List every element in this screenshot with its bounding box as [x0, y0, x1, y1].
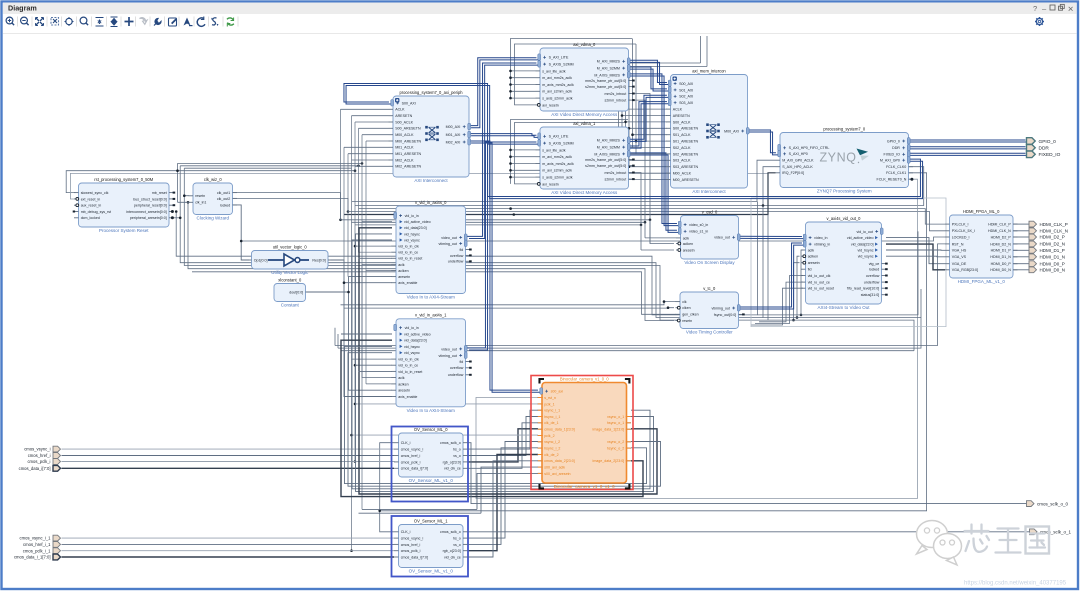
svg-text:HDMI_CLK_N: HDMI_CLK_N	[988, 229, 1011, 233]
svg-text:v_osd_0: v_osd_0	[702, 209, 718, 214]
block processing_system7_0	[776, 126, 914, 193]
wire FIXED_IO wire (interface)	[907, 153, 1027, 155]
watermark text guo (hand-drawn)	[1026, 527, 1050, 554]
svg-text:S01_ARESETN: S01_ARESETN	[673, 140, 699, 144]
svg-text:video_in: video_in	[814, 236, 827, 240]
svg-text:M02_AXI: M02_AXI	[446, 140, 461, 144]
wire vdma1 aclk stub y156.7	[511, 156, 536, 158]
svg-text:ACLK: ACLK	[673, 108, 683, 112]
wire clk_wiz clk_in1 net	[178, 201, 190, 203]
svg-text:FCLK_CLK1: FCLK_CLK1	[886, 171, 906, 175]
block OV_Sensor_ML_0	[394, 427, 468, 483]
wire clk band b4	[188, 202, 674, 320]
svg-text:Constant: Constant	[281, 303, 300, 308]
svg-text:vid_data[23:0]: vid_data[23:0]	[404, 226, 427, 230]
svg-text:aclken: aclken	[683, 242, 693, 246]
svg-text:hsync_o_2: hsync_o_2	[607, 447, 624, 451]
block axi_vdma_1	[536, 121, 635, 195]
wire vdma0 resetn wrap	[515, 44, 637, 105]
wire aresetn band b2	[180, 166, 763, 318]
svg-text:Utility Vector Logic: Utility Vector Logic	[271, 270, 309, 275]
Binocular camera orange pin stubs	[538, 398, 631, 474]
svg-text:M02_ACLK: M02_ACLK	[395, 158, 414, 162]
wire mi v x632.5	[632, 39, 634, 148]
wire vdma1 aclk stub y177.1	[511, 176, 536, 178]
svg-text:S_AXI_LITE: S_AXI_LITE	[549, 135, 569, 139]
toolbar background	[3, 14, 1077, 34]
svg-text:vid_data[23:0]: vid_data[23:0]	[851, 243, 874, 247]
wire image_data_1 loop	[359, 228, 657, 494]
svg-text:ZYNQ: ZYNQ	[819, 151, 856, 165]
toolbar gear icon	[6, 17, 238, 27]
wire mi v x636	[635, 44, 637, 154]
wire vsync_o_2 loop	[348, 353, 661, 487]
svg-text:clk_out1: clk_out1	[217, 191, 230, 195]
svg-text:S00_ACLK: S00_ACLK	[395, 120, 413, 124]
svg-text:Diagram: Diagram	[8, 4, 37, 13]
svg-text:aresetn: aresetn	[398, 389, 410, 393]
title bar window buttons	[1033, 4, 1074, 14]
wire active_video_1 feed	[341, 333, 392, 335]
wire vid0 video_out to vdma0 S_AXIS_S2MM (interface)	[467, 63, 539, 238]
svg-text:M00_ACLK: M00_ACLK	[395, 133, 414, 137]
svg-text:fid: fid	[808, 268, 812, 272]
output port HDMI_D2_N	[1029, 241, 1065, 247]
wire clk band h3	[184, 167, 351, 169]
junction d-v1clk149.9	[509, 149, 512, 152]
wire vid_active to VGA_DE	[886, 238, 945, 264]
wire mi aresetn stub 4	[629, 166, 667, 168]
wire vdma1 S2MM to S03_AXI (interface)	[627, 102, 669, 149]
wire axi_periph left pin net 8	[352, 159, 389, 161]
wire mi wrap top1	[619, 63, 701, 173]
selection corner handles Binocular_camera	[540, 379, 630, 488]
svg-text:vid_io_in_ce: vid_io_in_ce	[398, 251, 418, 255]
wire clk_wiz resetn net	[184, 195, 189, 197]
svg-text:S00_ARESETN: S00_ARESETN	[673, 127, 699, 131]
junction d-resetn	[183, 194, 186, 197]
icon interconnect crossbar axi_mem_intercon	[706, 123, 720, 138]
block v_osd_0	[676, 209, 740, 265]
input port cmos_href_i	[28, 453, 61, 459]
wire hdmi out net 0	[1013, 223, 1029, 225]
wire vsync_o_1 loop	[352, 240, 650, 489]
svg-text:cmos_data_i[7:0]: cmos_data_i[7:0]	[401, 555, 428, 559]
svg-text:OV_Sensor_ML_v1_0: OV_Sensor_ML_v1_0	[409, 478, 454, 483]
svg-text:AXI Video Direct Memory Access: AXI Video Direct Memory Access	[551, 190, 618, 195]
icon interconnect crossbar axi_periph	[425, 126, 439, 141]
input port cmos_data_i[7:0]	[19, 465, 61, 471]
svg-text:HDMI_D1_P: HDMI_D1_P	[1040, 248, 1065, 253]
wire low band 3	[341, 350, 914, 352]
svg-text:HDMI_D0_N: HDMI_D0_N	[1040, 268, 1066, 273]
junction d-mi-a1	[624, 121, 627, 124]
svg-text:S03_ARESETN: S03_ARESETN	[673, 165, 699, 169]
svg-text:s2mm_introut: s2mm_introut	[605, 178, 627, 182]
wire bundle v x351.5 b	[352, 359, 395, 551]
wire OV0 vs_o to hsync_i_1	[468, 417, 539, 456]
junction d-int2	[640, 224, 643, 227]
wire band b5	[192, 272, 676, 315]
block clk_wiz_0	[189, 177, 238, 221]
svg-text:s00_axi_aclk: s00_axi_aclk	[544, 466, 565, 470]
wire vtc band pair2	[344, 307, 674, 309]
svg-text:underflow: underflow	[864, 281, 880, 285]
wire cmos_pclk_i_1 net	[62, 550, 395, 552]
wire vaxi out clk feed	[755, 276, 803, 324]
svg-text:vid_vsync: vid_vsync	[858, 255, 874, 259]
svg-text:v_vid_in_axi4s_0: v_vid_in_axi4s_0	[415, 200, 447, 205]
input port cmos_pclk_i_1	[23, 548, 61, 554]
svg-text:aresetn: aresetn	[808, 261, 820, 265]
svg-text:vs_o: vs_o	[453, 543, 461, 547]
svg-text:vid_io_in_reset: vid_io_in_reset	[398, 257, 422, 261]
svg-text:s00_axi_aresetn: s00_axi_aresetn	[544, 472, 570, 476]
wire mi v x629	[628, 67, 630, 167]
junction d-mi-r1	[628, 127, 631, 130]
junction d-v0clk84.5	[509, 83, 512, 86]
svg-text:M00_ACLK: M00_ACLK	[673, 172, 692, 176]
wire mi aclk stub 0	[619, 108, 667, 110]
svg-text:FCLK_CLK0: FCLK_CLK0	[886, 165, 906, 169]
block processing_system7_0_axi_periph	[389, 90, 471, 183]
svg-text:axi_vdma_1: axi_vdma_1	[573, 121, 596, 126]
junction d-mi-a2	[631, 133, 634, 136]
block xlconstant_0	[274, 277, 310, 307]
wire vaxi out reset feed	[751, 288, 803, 325]
svg-text:cmos_vsync_i: cmos_vsync_i	[401, 448, 424, 452]
svg-text:resetn: resetn	[195, 194, 205, 198]
svg-text:Binocular_camera_v1_0_v1_0: Binocular_camera_v1_0_v1_0	[554, 484, 615, 489]
svg-text:HDMI_D2_N: HDMI_D2_N	[990, 242, 1011, 246]
watermark text xin (hand-drawn)	[965, 525, 990, 552]
svg-text:M_AXIS_MM2S: M_AXIS_MM2S	[594, 152, 620, 156]
svg-text:HDMI_D1_P: HDMI_D1_P	[991, 249, 1012, 253]
wire image_data_2 loop	[341, 340, 643, 496]
output port HDMI_D1_P	[1029, 247, 1065, 253]
svg-text:v_vid_in_axi4s_1: v_vid_in_axi4s_1	[415, 313, 447, 318]
svg-text:vsync_o_2: vsync_o_2	[607, 440, 624, 444]
block v_vid_in_axi4s_1	[392, 313, 472, 413]
watermark text wang (hand-drawn)	[996, 529, 1021, 553]
wire vdma1 resetn wrap	[515, 123, 625, 184]
block v_axi4s_vid_out_0	[801, 216, 888, 310]
wire axi_periph left pin net 6	[344, 146, 389, 148]
svg-text:clk_wiz_0: clk_wiz_0	[204, 177, 222, 182]
svg-text:vid_vsync: vid_vsync	[404, 238, 420, 242]
wire vdma0 S2MM to S01_AXI (interface)	[627, 67, 669, 91]
output port HDMI_CLK_P	[1029, 221, 1068, 227]
wire aresetn band b1	[176, 212, 757, 315]
wire vaxi aclken feed	[797, 256, 800, 317]
svg-text:S03_AXI: S03_AXI	[679, 101, 693, 105]
svg-text:VGA_HS: VGA_HS	[952, 249, 967, 253]
svg-text:PXLCLK_I: PXLCLK_I	[952, 223, 969, 227]
junction d-v1clk170.3	[509, 169, 512, 172]
wire mi v x625.5	[625, 67, 627, 160]
junction d-hp0aclk	[762, 204, 765, 207]
svg-text:vid_active_video: vid_active_video	[847, 236, 874, 240]
svg-text:clk_in1: clk_in1	[195, 201, 206, 205]
svg-text:hsync_i_1: hsync_i_1	[544, 415, 560, 419]
wire vdma1 MM2S to S02_AXI (interface)	[627, 95, 669, 141]
junction d-mi-a0	[617, 108, 620, 111]
wire vtc band pair1	[341, 302, 677, 305]
wire mid 201.5 gp0aclk	[352, 160, 776, 201]
block v_vid_in_axi4s_0	[392, 200, 472, 300]
wire bundle v x348	[347, 154, 349, 277]
junction d-int1	[644, 221, 647, 224]
svg-text:S_AXI_HP0: S_AXI_HP0	[789, 152, 808, 156]
wire mi aresetn stub 1	[629, 127, 667, 129]
svg-text:vid_io_in: vid_io_in	[405, 214, 419, 218]
svg-text:S00_AXI: S00_AXI	[679, 82, 693, 86]
wire vid0 reset feed	[359, 257, 393, 259]
wire axi_periph left pin net 1	[352, 115, 389, 117]
wire hdmi out net 5	[1013, 256, 1029, 258]
wire slowest_sync_clk net	[66, 171, 355, 193]
wire s00_axi_aresetn net	[477, 473, 538, 509]
wire M01_AXI to vdma1 S_AXI_LITE (interface)	[469, 134, 539, 138]
junction d-pclkport2	[350, 549, 353, 552]
svg-text:s2mm_frame_ptr_out[5:0]: s2mm_frame_ptr_out[5:0]	[585, 164, 626, 168]
svg-text:clk: clk	[682, 300, 687, 304]
svg-text:Video In to AXI4-Stream: Video In to AXI4-Stream	[407, 295, 455, 300]
wire osd video_out to video_in (interface)	[738, 236, 804, 238]
selection rect Binocular_camera (red)	[531, 376, 633, 490]
svg-text:vid_vsync: vid_vsync	[404, 351, 420, 355]
svg-text:HDMI_CLK_P: HDMI_CLK_P	[988, 223, 1011, 227]
svg-text:M_AXI_MM2S: M_AXI_MM2S	[597, 139, 621, 143]
wire fclk_clk1 branch OV1 clk	[380, 511, 394, 532]
input port cmos_vsync_i_1	[20, 535, 61, 541]
block v_tc_0	[676, 286, 745, 335]
svg-text:M02_ARESETN: M02_ARESETN	[395, 165, 421, 169]
junction d-v0clk70.9	[509, 70, 512, 73]
svg-text:S_AXIS_S2MM: S_AXIS_S2MM	[549, 63, 574, 67]
svg-text:axi_resetn: axi_resetn	[542, 182, 559, 186]
junction d-pclkport	[354, 460, 357, 463]
svg-text:cmos_href_i_1: cmos_href_i_1	[23, 542, 51, 547]
wire tc v x700.5	[700, 36, 702, 63]
svg-text:✕: ✕	[1068, 5, 1074, 14]
svg-text:VGA_VS: VGA_VS	[952, 255, 967, 259]
wire OV1 rgb_o to cmos_data_2	[468, 455, 539, 551]
wire vdma0 aclk stub y91.3	[511, 90, 536, 92]
wire OV0 hs_o to vsync_i_1	[468, 410, 539, 449]
wire axi_periph left pin net 9	[355, 165, 389, 167]
wire axi_periph left pin net 4	[362, 134, 389, 136]
wire vid_data to VGA_RGB	[886, 244, 945, 270]
output port cmos_sclk_o_0	[1027, 501, 1069, 507]
wire vdma1 aclk wrap	[511, 120, 629, 184]
wire mi aresetn stub 5	[622, 179, 667, 181]
svg-text:S00_ARESETN: S00_ARESETN	[395, 127, 421, 131]
svg-text:S02_AXI: S02_AXI	[679, 95, 693, 99]
svg-text:HDMI_D2_P: HDMI_D2_P	[1040, 235, 1065, 240]
wire clk_in1 riser	[177, 163, 179, 202]
junction d-v1clk177.1	[509, 176, 512, 179]
junction d-va3	[792, 319, 795, 322]
block rst_processing_system7_0_50M	[73, 177, 176, 233]
svg-text:HDMI_CLK_N: HDMI_CLK_N	[1040, 229, 1069, 234]
svg-text:fid: fid	[460, 248, 464, 252]
svg-text:axis_enable: axis_enable	[398, 281, 417, 285]
svg-text:mm2s_frame_ptr_out[5:0]: mm2s_frame_ptr_out[5:0]	[585, 158, 626, 162]
svg-text:CLK_i: CLK_i	[401, 441, 411, 445]
svg-text:S02_ARESETN: S02_ARESETN	[673, 152, 699, 156]
wire mid 205.5 hp0aclk branch	[763, 167, 776, 206]
wire OV1 hs_o to vsync_i_2	[468, 442, 539, 539]
junction d-b2	[179, 217, 182, 220]
svg-text:aresetn: aresetn	[398, 275, 410, 279]
svg-text:cmos_sclk_o_0: cmos_sclk_o_0	[1037, 501, 1069, 506]
wire hdmi out net 1	[1013, 230, 1029, 232]
svg-text:overflow: overflow	[866, 274, 880, 278]
svg-text:?: ?	[1033, 4, 1037, 13]
output port DDR	[1027, 145, 1050, 152]
wire low band 1	[335, 244, 945, 346]
svg-text:vtiming_out: vtiming_out	[712, 306, 730, 310]
wire bundle v x366 low	[365, 271, 367, 384]
junction d-v1clk156.7	[509, 155, 512, 158]
junction d-mi-a5	[617, 172, 620, 175]
svg-text:xlconstant_0: xlconstant_0	[278, 277, 302, 282]
svg-text:cmos_sclk_o: cmos_sclk_o	[440, 441, 461, 445]
junction d-b1	[175, 210, 178, 213]
selection rect OV_Sensor_ML_0	[392, 427, 469, 502]
wire DDR wire (interface)	[907, 147, 1027, 149]
junction d-v0clk91.3	[509, 90, 512, 93]
wire Res branch to vid1 axis_enable	[344, 283, 392, 397]
wire mid 224.9	[355, 224, 641, 226]
svg-text:axi_vdma_0: axi_vdma_0	[573, 42, 596, 47]
svg-text:M01_AXI: M01_AXI	[446, 133, 461, 137]
svg-text:vid_clk_ce: vid_clk_ce	[444, 555, 461, 559]
junction d-mi-r5	[621, 178, 624, 181]
block OV_Sensor_ML_1	[394, 518, 468, 573]
svg-text:clk_de_2: clk_de_2	[544, 453, 558, 457]
wire axi_periph left pin net 7	[348, 153, 389, 155]
wire cmos_vsync_i_1 net	[62, 537, 395, 539]
svg-text:DDR: DDR	[892, 146, 900, 150]
icon ZYNQ logo	[819, 149, 869, 165]
svg-text:HDMI_D2_N: HDMI_D2_N	[1040, 242, 1066, 247]
svg-text:rgb_o[23:0]: rgb_o[23:0]	[443, 549, 461, 553]
svg-text:vsync_i_1: vsync_i_1	[544, 409, 560, 413]
svg-text:vtg_ce: vtg_ce	[869, 262, 880, 266]
svg-text:M_AXI_S2MM: M_AXI_S2MM	[597, 146, 620, 150]
wire cmos_data_i net	[62, 467, 395, 469]
svg-text:s2mm_frame_ptr_out[5:0]: s2mm_frame_ptr_out[5:0]	[585, 85, 626, 89]
wire bundle v x351.5	[352, 116, 393, 359]
wire osd aresetn feed	[641, 249, 674, 251]
svg-text:peripheral_reset[0:0]: peripheral_reset[0:0]	[134, 204, 167, 208]
svg-text:axi_mem_intercon: axi_mem_intercon	[692, 68, 726, 73]
svg-text:hs_o: hs_o	[453, 448, 461, 452]
svg-text:rgb_o[23:0]: rgb_o[23:0]	[443, 460, 461, 464]
wire cmos_vsync_i net	[62, 448, 395, 450]
wire cmos_sclk_o_1 net	[468, 531, 1030, 533]
svg-text:VGA_RGB[23:0]: VGA_RGB[23:0]	[952, 268, 978, 272]
svg-text:M_AXI_MM2S: M_AXI_MM2S	[597, 60, 621, 64]
svg-text:M00_ARESETN: M00_ARESETN	[673, 178, 699, 182]
junction d-vid1ce	[354, 364, 357, 367]
wire bundle v x362	[362, 135, 392, 265]
svg-text:aclken: aclken	[398, 269, 408, 273]
svg-text:ext_reset_in: ext_reset_in	[81, 197, 101, 201]
wire osd aresetn v	[640, 225, 642, 250]
svg-text:ARESETN: ARESETN	[395, 114, 412, 118]
svg-text:Video Timing Controller: Video Timing Controller	[686, 330, 733, 335]
wire mi aclk stub 2	[633, 134, 667, 136]
svg-text:cmos_vsync_i_1: cmos_vsync_i_1	[20, 536, 52, 541]
junction d-mi-a3	[617, 146, 620, 149]
junction d-vtc1	[663, 300, 666, 303]
svg-text:S01_ACLK: S01_ACLK	[673, 133, 691, 137]
output port GPIO_0	[1027, 138, 1057, 145]
wire vdma1 aclk stub y170.3	[511, 169, 536, 171]
output port FIXED_IO	[1027, 151, 1061, 158]
wire s00_axi_aresetn h	[362, 508, 477, 510]
svg-text:locked: locked	[869, 268, 879, 272]
svg-text:S02_ACLK: S02_ACLK	[673, 146, 691, 150]
wire pclk to binocular pclk_1	[355, 403, 538, 405]
wire vdma0 s2mm_introut net	[633, 100, 645, 222]
svg-text:M01_ARESETN: M01_ARESETN	[395, 152, 421, 156]
svg-text:cmos_href_i: cmos_href_i	[28, 453, 51, 458]
svg-text:m_axis_mm2s_aclk: m_axis_mm2s_aclk	[542, 162, 574, 166]
wire mi aclk stub 5	[619, 172, 667, 174]
svg-text:GPIO_0: GPIO_0	[1039, 139, 1057, 145]
svg-text:ARESETN: ARESETN	[673, 114, 690, 118]
input port cmos_vsync_i	[24, 446, 60, 452]
junction d-pclk0	[354, 245, 357, 248]
svg-text:FIXED_IO: FIXED_IO	[884, 153, 901, 157]
svg-text:OV_Sensor_ML_1: OV_Sensor_ML_1	[414, 518, 448, 523]
svg-text:mb_reset: mb_reset	[152, 191, 167, 195]
block axi_vdma_0	[536, 42, 635, 117]
svg-text:M00_AXI: M00_AXI	[724, 129, 739, 133]
wire s00_axi_aclk net	[481, 467, 538, 513]
svg-text:s_axis_s2mm_aclk: s_axis_s2mm_aclk	[542, 176, 573, 180]
junction d-co1	[339, 219, 342, 222]
svg-text:cmos_sclk_o: cmos_sclk_o	[440, 530, 461, 534]
wire vid1 reset feed	[359, 370, 393, 372]
svg-text:CLK_i: CLK_i	[401, 530, 411, 534]
junction d-v1clk163.5	[509, 162, 512, 165]
junction d-band2	[361, 162, 364, 165]
wire vdma0 mm2s_introut net	[633, 94, 650, 220]
svg-text:vid_io_in: vid_io_in	[405, 326, 419, 330]
wire vid1 video_out to vdma1 S_AXIS_S2MM (interface)	[467, 142, 539, 350]
output port cmos_sclk_o_1	[1030, 529, 1072, 535]
wire bundle v x362 low	[361, 264, 363, 509]
wire pclk_i to vid0 clk	[355, 245, 392, 247]
svg-text:vsync_o_1: vsync_o_1	[607, 415, 624, 419]
svg-text:S01_AXI: S01_AXI	[679, 88, 693, 92]
svg-text:cmos_data_i_1[7:0]: cmos_data_i_1[7:0]	[14, 555, 51, 560]
junction d-mi-a4	[624, 159, 627, 162]
svg-text:AXI Interconnect: AXI Interconnect	[692, 189, 726, 194]
junction d-va2	[796, 316, 799, 319]
output port HDMI_D0_N	[1029, 267, 1065, 273]
svg-text:vid_io_in_reset: vid_io_in_reset	[398, 370, 422, 374]
svg-text:FIXED_IO: FIXED_IO	[1039, 152, 1061, 158]
wire fclk_clk1 long net	[380, 173, 927, 511]
wire mi wrap top2	[622, 67, 707, 180]
svg-text:aclk: aclk	[398, 376, 405, 380]
